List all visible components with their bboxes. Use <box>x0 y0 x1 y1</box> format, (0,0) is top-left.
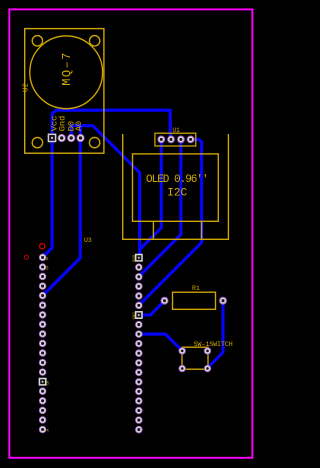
svg-text:GND: GND <box>133 312 137 320</box>
U1 pad 1 <box>158 136 165 143</box>
header J-right pin1 (square) <box>136 255 142 261</box>
U2 mounting hole TR <box>89 36 99 46</box>
svg-text:5: 5 <box>46 381 49 387</box>
svg-text:2: 2 <box>46 256 49 262</box>
header J-left pin20 <box>39 426 46 433</box>
header J-left pin12 <box>39 350 46 357</box>
switch S1 outline <box>182 347 208 369</box>
header J-right pin6 <box>136 302 143 309</box>
header J-right pin2 <box>136 264 143 271</box>
header J-right pin12 <box>136 360 143 367</box>
header J-right pin17 <box>136 407 143 414</box>
U2 pad 4 A0 <box>77 134 84 141</box>
header J-right pin7 (square) <box>136 312 142 318</box>
U2 pad 1 Vcc (square) <box>48 134 55 141</box>
R1 pad 1 <box>161 297 168 304</box>
resistor R1 outline <box>173 292 216 309</box>
header J-left pin1 (red pad) <box>40 244 45 249</box>
OLED display window <box>133 154 219 221</box>
svg-text:3: 3 <box>46 265 49 271</box>
svg-text:SW–1SWITCH: SW–1SWITCH <box>194 341 233 348</box>
svg-text:x: x <box>46 428 49 433</box>
header J-right pin19 <box>136 426 143 433</box>
header J-right pin18 <box>136 417 143 424</box>
via (small red circle) <box>24 255 28 259</box>
wire right header pin7 to R1 pad1 <box>139 301 165 315</box>
U1 pad 4 <box>187 136 194 143</box>
R1 pad 2 <box>220 297 227 304</box>
header J-right pin5 <box>136 293 143 300</box>
wire D0/A0 to right header pin1 <box>71 126 139 258</box>
OLED tab edge left <box>152 221 154 239</box>
header J-left pin18 <box>39 407 46 414</box>
wire A0 riser <box>79 126 82 136</box>
header J-right pin9 <box>136 331 143 338</box>
header J-right pin3 <box>136 274 143 281</box>
svg-text:GND: GND <box>133 254 137 262</box>
switch pad TR <box>204 348 210 354</box>
header J-right pin16 <box>136 398 143 405</box>
header J-left pin8 <box>39 312 46 319</box>
header J-left pin9 <box>39 321 46 328</box>
header J-left pin7 <box>39 302 46 309</box>
U2 mounting hole BR <box>89 137 99 147</box>
svg-text:R1: R1 <box>192 285 200 292</box>
header J-left pin15 (square) <box>39 379 45 385</box>
U1 pad 3 <box>178 136 185 143</box>
U2 sensor circle <box>30 36 103 109</box>
switch pad BR <box>204 365 210 371</box>
wire OLED pad3 to right header pin3 <box>139 141 181 277</box>
header J-left pin3 <box>39 264 46 271</box>
OLED body outline (open top) <box>123 134 229 239</box>
header J-right pin14 <box>136 379 143 386</box>
wire A0 down to left header pin5 <box>43 139 81 296</box>
header J-left pin10 <box>39 331 46 338</box>
header J-left pin19 <box>39 417 46 424</box>
board outline <box>9 9 252 457</box>
wire R1 pad2 to switch pad BR <box>208 302 223 368</box>
U2 mounting hole BL <box>32 137 42 147</box>
U2 pad 3 D0 <box>68 134 75 141</box>
header J-right pin8 <box>136 321 143 328</box>
header J-left pin6 <box>39 292 46 299</box>
switch pad TL <box>179 348 185 354</box>
wire Vcc to OLED pad2 <box>52 110 170 139</box>
header J-left pin2 <box>39 254 46 261</box>
U1 pad 2 <box>168 136 175 143</box>
header J-left pin14 <box>39 369 46 376</box>
wire OLED pad4 to right header pin6 <box>139 139 202 305</box>
header J-left pin17 <box>39 398 46 405</box>
wire D0 riser <box>70 126 73 136</box>
wire Vcc down to header J-left pin1 <box>43 139 53 257</box>
header J-right pin11 <box>136 350 143 357</box>
U2 mounting hole TL <box>32 36 42 46</box>
sensor module U2 outline <box>25 29 104 154</box>
header J-right pin10 <box>136 340 143 347</box>
U2 pad 2 Gnd <box>58 134 65 141</box>
header J-right pin13 <box>136 369 143 376</box>
header J-left pin13 <box>39 359 46 366</box>
wire right header pin9 to switch pad TL <box>139 334 182 351</box>
header J-right pin4 <box>136 283 143 290</box>
OLED header outline U1 <box>155 133 196 146</box>
header J-left pin11 <box>39 340 46 347</box>
header J-left pin5 <box>39 283 46 290</box>
wire OLED pad1 to right header pin1 <box>140 141 162 258</box>
header J-left pin16 <box>39 388 46 395</box>
header J-right pin15 <box>136 388 143 395</box>
switch pad BL <box>179 365 185 371</box>
OLED tab edge right <box>201 221 203 239</box>
header J-left pin4 <box>39 273 46 280</box>
